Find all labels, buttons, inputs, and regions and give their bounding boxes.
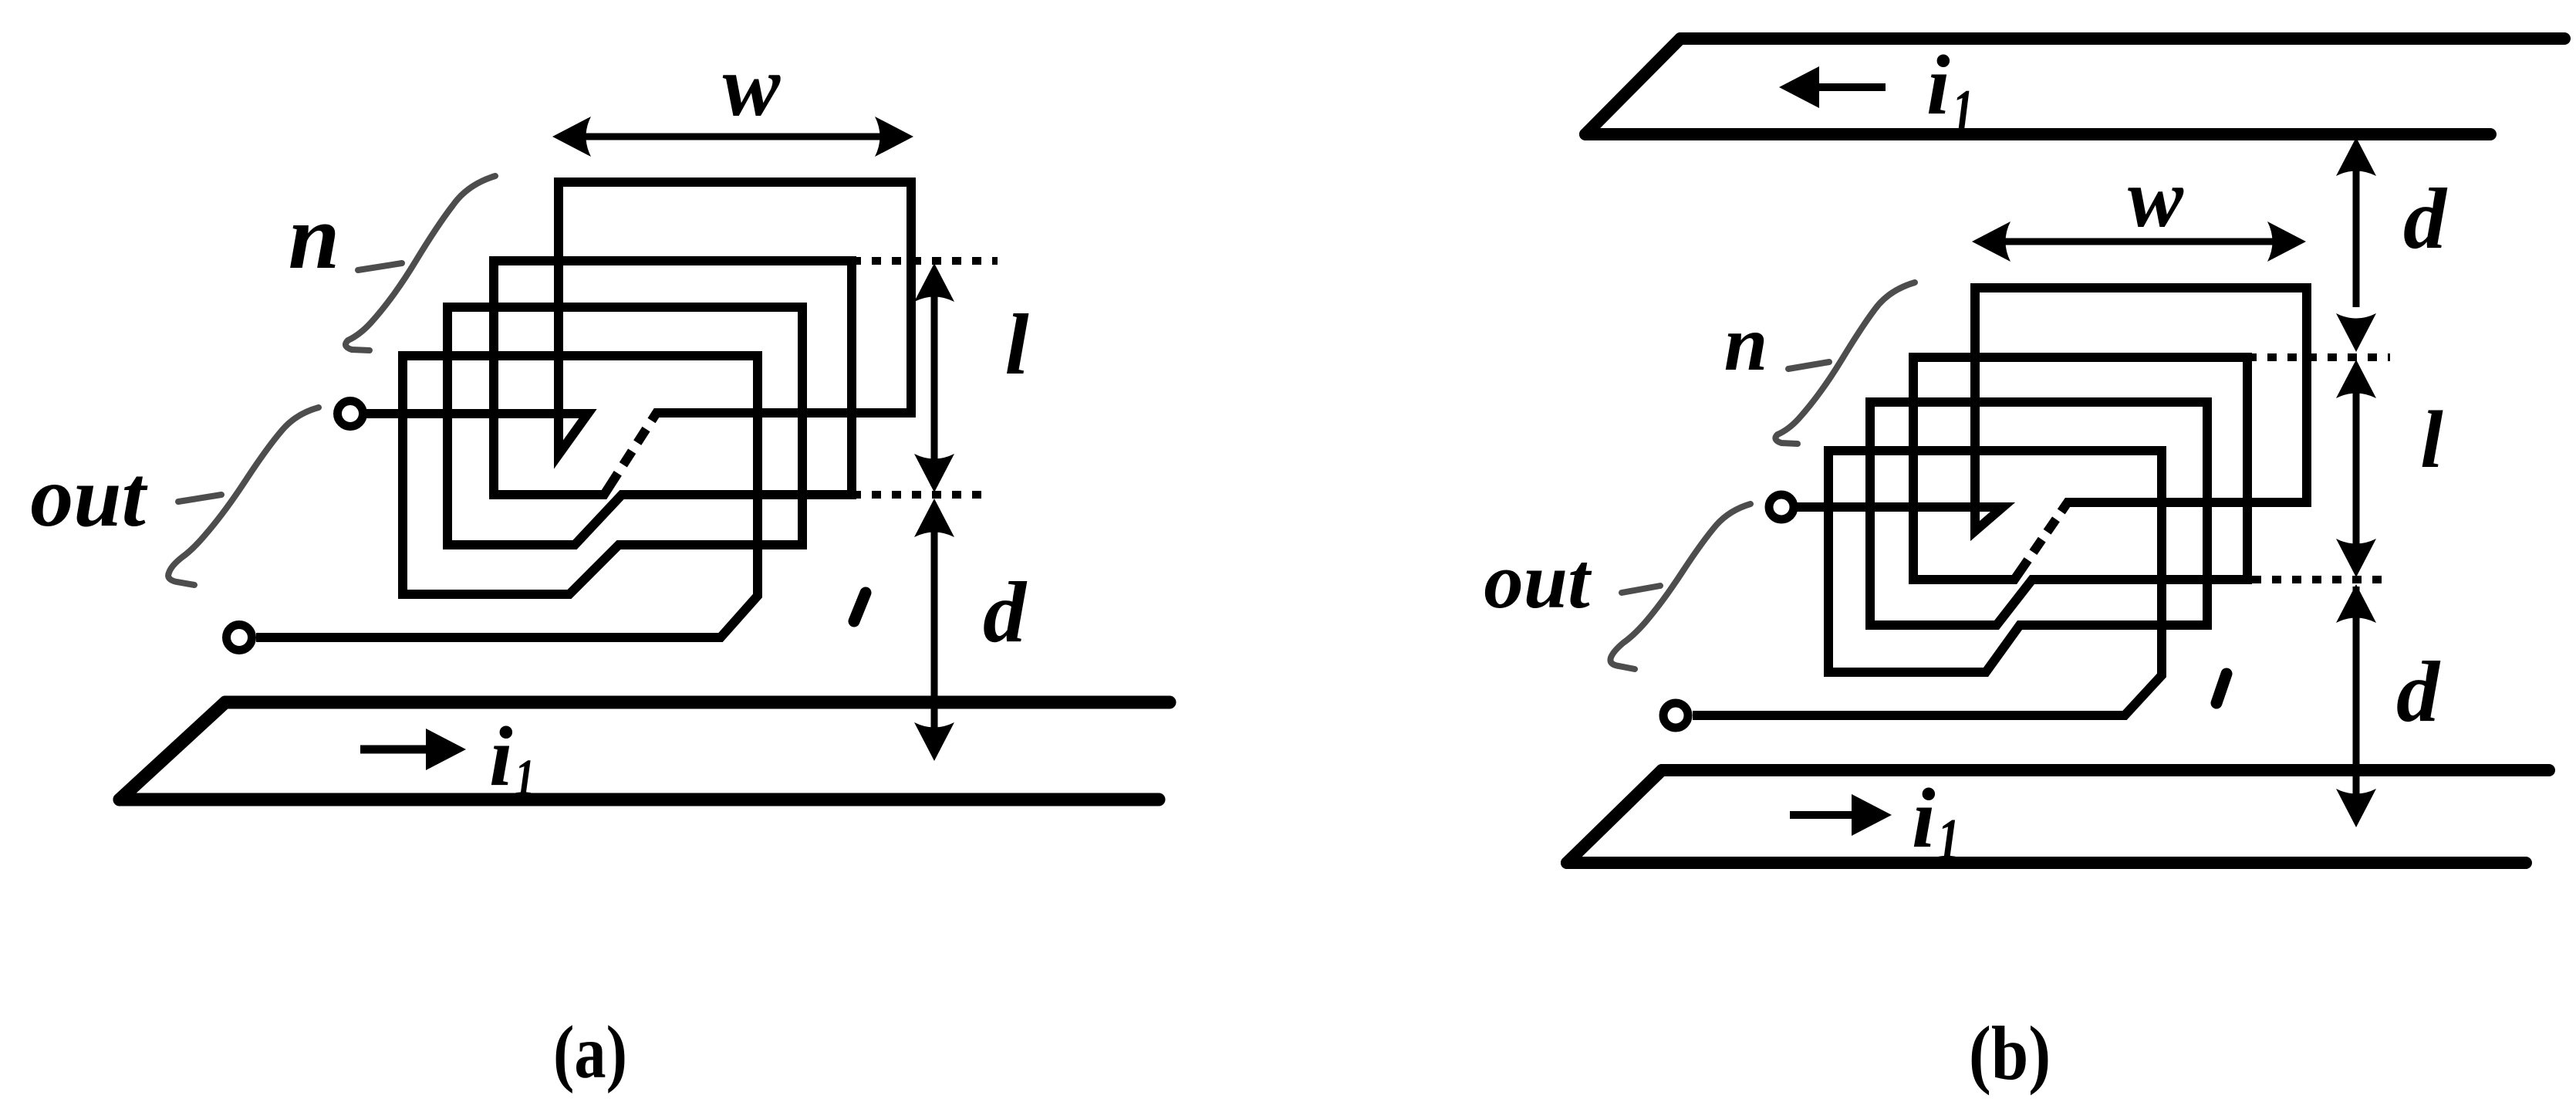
coil turns 2-3-4 with exit lead (a) [256,261,852,637]
svg-text:w: w [723,39,782,134]
bottom conductor top edge (b) [1662,764,2549,776]
dash-dot link turn1-turn2 (a) [585,413,680,495]
svg-text:d: d [983,565,1028,661]
leader squiggle out (a) [168,407,319,585]
dimension arrow w (a) [552,117,913,157]
svg-text:1: 1 [515,749,535,807]
svg-text:i: i [489,709,513,803]
svg-text:out: out [1484,537,1592,625]
conductor bottom edge (a) [120,793,1159,806]
current arrow i1 (a) [360,729,466,770]
leader squiggle out (b) [1610,504,1751,669]
svg-text:(a): (a) [553,1009,627,1094]
svg-text:1: 1 [1952,78,1974,146]
winding continuation tick (b) [2216,674,2227,703]
dimension arrow l (b) [2336,360,2376,577]
current arrow i1 top (b) [1779,66,1886,108]
coil turn 1 with out+ lead (a) [363,182,911,455]
svg-text:out: out [30,449,147,545]
top conductor left slant (b) [1585,39,1680,134]
svg-text:l: l [1004,297,1028,393]
dashed extension line bottom (b) [2252,576,2385,583]
svg-text:w: w [2128,153,2184,245]
dash-dot link turn1-turn2 (b) [1997,502,2092,580]
winding continuation tick (a) [854,593,866,621]
terminal out- (a) [227,625,252,651]
top conductor bottom edge (b) [1585,128,2490,140]
svg-text:(b): (b) [1969,1010,2051,1096]
dimension arrow w (b) [1972,221,2306,262]
dashed extension line bottom (a) [852,491,990,499]
dimension arrow d bottom (b) [2336,584,2376,827]
svg-text:i: i [1912,771,1936,865]
bottom conductor bottom edge (b) [1567,857,2526,869]
terminal out- (b) [1663,703,1688,728]
svg-text:d: d [2396,644,2441,740]
terminal out+ (a) [338,401,363,427]
coil turn 1 with out+ lead (b) [1794,288,2307,531]
dashed extension line top (b) [2247,353,2390,361]
bottom conductor left slant (b) [1567,770,1662,863]
leader squiggle n (a) [346,176,495,350]
dashed extension line top (a) [852,257,998,265]
conductor left slant (a) [120,702,225,800]
svg-text:n: n [1724,300,1768,387]
current arrow i1 bottom (b) [1790,794,1892,836]
svg-text:1: 1 [1937,806,1960,872]
conductor top edge (a) [225,696,1170,709]
dimension arrow d (a) [914,499,954,761]
leader squiggle n (b) [1775,282,1915,444]
dimension arrow l (a) [914,263,954,492]
coil turns 2-3-4 with exit lead (b) [1693,357,2247,715]
svg-text:l: l [2420,394,2443,485]
dimension arrow d top (b) [2336,137,2376,352]
svg-text:n: n [289,185,340,288]
terminal out+ (b) [1769,495,1794,519]
top conductor top edge (b) [1680,32,2564,45]
svg-text:d: d [2403,171,2448,267]
svg-text:i: i [1926,38,1950,132]
